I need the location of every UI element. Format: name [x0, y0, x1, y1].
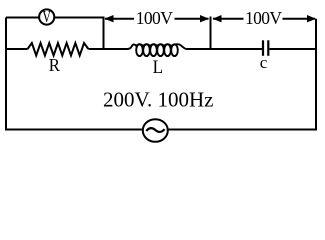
svg-text:200V. 100Hz: 200V. 100Hz — [103, 88, 213, 112]
svg-text:R: R — [49, 55, 61, 75]
svg-text:100V: 100V — [245, 8, 282, 28]
svg-text:c: c — [260, 53, 268, 72]
svg-text:V: V — [42, 8, 51, 26]
svg-text:100V: 100V — [136, 8, 173, 28]
svg-text:L: L — [153, 56, 163, 77]
